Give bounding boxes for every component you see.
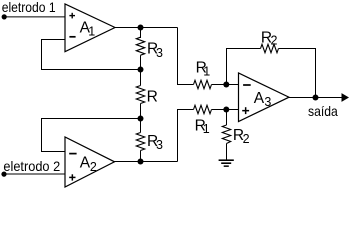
node eletrodo 2 (input terminal dot) — [1, 172, 6, 177]
junction A3 - input node — [223, 82, 229, 88]
svg-text:A: A — [254, 90, 265, 107]
wire A1 output — [115, 27, 178, 29]
svg-text:2: 2 — [243, 132, 250, 146]
svg-text:3: 3 — [156, 138, 163, 152]
value label R1 (top) — [196, 60, 211, 79]
junction A3 + input node — [223, 107, 229, 113]
svg-text:3: 3 — [264, 95, 271, 109]
wire R2 to ground — [226, 144, 228, 160]
resistor R2 (to ground) — [222, 125, 230, 144]
svg-text:1: 1 — [88, 25, 95, 39]
wire A3 feedback up from - input — [227, 49, 261, 85]
junction A2 output node — [138, 159, 144, 165]
wire junction to R3 bottom — [140, 119, 142, 133]
wire R3 to junction — [140, 55, 142, 69]
wire A3 output to saida — [289, 97, 342, 99]
junction R/R3 node — [138, 116, 144, 122]
value label R2 (feedback) — [261, 29, 278, 47]
value label R2 (ground leg) — [233, 127, 250, 146]
svg-text:1: 1 — [203, 64, 210, 78]
op-amp A3 (triangle body) — [239, 73, 290, 122]
svg-text:2: 2 — [90, 160, 97, 174]
wire A1 output down to top R1 — [178, 28, 194, 85]
resistor R1 (top, to A3 inverting input) — [194, 80, 212, 88]
label saida — [308, 103, 338, 119]
svg-text:eletrodo 1: eletrodo 1 — [2, 0, 56, 15]
value label R1 (bottom) — [195, 117, 210, 136]
wire R to junction — [140, 104, 142, 119]
junction R3/R node — [138, 67, 144, 73]
value label R — [147, 89, 158, 106]
resistor R3 (bottom of gain network) — [136, 133, 144, 151]
node eletrodo 1 (input terminal dot) — [2, 14, 7, 19]
A3 + input pin marker — [242, 107, 249, 114]
label A2 — [80, 154, 97, 174]
svg-text:1: 1 — [203, 122, 210, 136]
junction A1 output node — [138, 25, 144, 31]
wire A2 feedback (divider node to A2 - input) — [42, 119, 141, 152]
op-amp A2 (triangle body) — [65, 137, 115, 187]
junction output node — [313, 95, 319, 101]
A1 - input pin marker — [69, 36, 75, 38]
resistor R (gain resistor) — [136, 86, 144, 104]
label eletrodo 2 — [3, 158, 60, 174]
wire A1 output node to R3 top — [140, 28, 142, 39]
A2 + input pin marker — [69, 174, 75, 180]
svg-text:eletrodo 2: eletrodo 2 — [3, 158, 60, 174]
wire eletrodo 1 to A1 + input — [4, 16, 65, 18]
wire R1 to A3 - input — [212, 84, 239, 86]
resistor R3 (top of gain network) — [136, 37, 144, 55]
wire A3 + input node down to R2 — [226, 110, 228, 126]
wire R2 to output node — [279, 49, 316, 98]
label A3 — [254, 90, 272, 109]
wire R1 to A3 + input — [212, 109, 239, 111]
resistor R2 (feedback) — [261, 44, 279, 52]
A2 - input pin marker — [69, 153, 76, 155]
op-amp A1 (triangle body) — [65, 4, 115, 52]
value label R3 (top) — [147, 41, 163, 60]
svg-text:R: R — [147, 89, 158, 106]
resistor R1 (bottom, to A3 non-inverting input) — [194, 105, 212, 113]
wire A2 output up to bottom R1 — [178, 110, 194, 162]
wire junction to R top — [140, 70, 142, 86]
svg-text:saída: saída — [308, 103, 338, 119]
wire A2 output — [115, 161, 178, 163]
label A1 — [80, 20, 96, 39]
A3 - input pin marker — [243, 84, 251, 86]
wire R3 bottom to A2 output node — [140, 151, 142, 162]
label eletrodo 1 — [2, 0, 56, 15]
output arrowhead — [342, 93, 350, 102]
ground symbol — [219, 159, 234, 167]
svg-text:2: 2 — [270, 34, 277, 48]
wire A1 feedback (output divider node to A1 - input) — [42, 40, 141, 70]
svg-text:3: 3 — [156, 46, 163, 60]
wire eletrodo 2 to A2 + input — [4, 173, 65, 175]
value label R3 (bottom) — [147, 133, 163, 152]
A1 + input pin marker — [69, 13, 75, 19]
